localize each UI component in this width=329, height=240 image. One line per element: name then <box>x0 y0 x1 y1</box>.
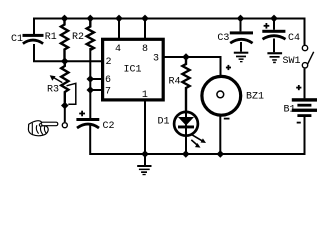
svg-text:SW1: SW1 <box>283 56 301 67</box>
svg-text:4: 4 <box>115 44 121 55</box>
svg-text:R1: R1 <box>45 32 57 43</box>
svg-text:R3: R3 <box>47 84 59 95</box>
svg-text:3: 3 <box>153 53 159 64</box>
svg-text:7: 7 <box>105 86 111 97</box>
svg-text:8: 8 <box>142 44 148 55</box>
svg-text:C3: C3 <box>217 33 229 44</box>
svg-text:2: 2 <box>106 57 112 68</box>
svg-text:D1: D1 <box>158 116 170 127</box>
svg-text:R4: R4 <box>169 76 181 87</box>
svg-text:C1: C1 <box>11 34 23 45</box>
svg-text:IC1: IC1 <box>124 64 142 75</box>
svg-text:C4: C4 <box>288 33 300 44</box>
svg-text:6: 6 <box>105 75 111 86</box>
svg-text:1: 1 <box>142 90 148 101</box>
svg-text:BZ1: BZ1 <box>246 91 264 102</box>
svg-text:B1: B1 <box>284 104 296 115</box>
svg-text:C2: C2 <box>103 121 115 132</box>
svg-text:R2: R2 <box>72 32 84 43</box>
